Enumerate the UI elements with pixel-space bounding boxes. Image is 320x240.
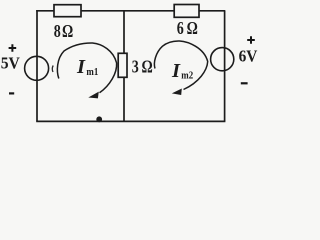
arrowhead of Im2 xyxy=(172,89,182,96)
svg-text:I: I xyxy=(171,60,181,82)
mesh current loop arrow Im2 xyxy=(154,41,207,90)
wire: right branch xyxy=(224,11,226,122)
svg-text:I: I xyxy=(76,56,86,78)
arrowhead of Im1 xyxy=(88,92,99,99)
polarity minus of V2 xyxy=(241,82,248,84)
svg-text:6V: 6V xyxy=(239,48,258,66)
svg-text:3 Ω: 3 Ω xyxy=(132,58,153,77)
wire: bottom xyxy=(36,120,225,122)
resistor R2 6 ohm box xyxy=(174,5,199,18)
svg-text:m1: m1 xyxy=(86,66,98,78)
svg-text:8 Ω: 8 Ω xyxy=(54,23,73,42)
voltage source V2 (6V) circle xyxy=(211,48,234,71)
wire: middle branch xyxy=(123,11,125,122)
polarity plus of V1 xyxy=(9,44,17,52)
svg-text:5V: 5V xyxy=(1,55,21,72)
voltage source V1 (5V) circle xyxy=(25,56,49,80)
mesh current loop arrow Im1 xyxy=(57,43,116,93)
svg-text:6 Ω: 6 Ω xyxy=(177,20,198,39)
node: bottom junction dot xyxy=(96,116,102,122)
resistor R1 8 ohm box xyxy=(54,5,81,17)
polarity minus of V1 xyxy=(9,92,14,94)
wire: top xyxy=(36,10,225,12)
wire: left branch xyxy=(36,10,38,121)
svg-text:m2: m2 xyxy=(181,70,193,82)
resistor R3 3 ohm box xyxy=(118,53,127,77)
polarity plus of V2 xyxy=(247,36,255,44)
stray arc mark left of Im1 loop xyxy=(51,66,54,73)
